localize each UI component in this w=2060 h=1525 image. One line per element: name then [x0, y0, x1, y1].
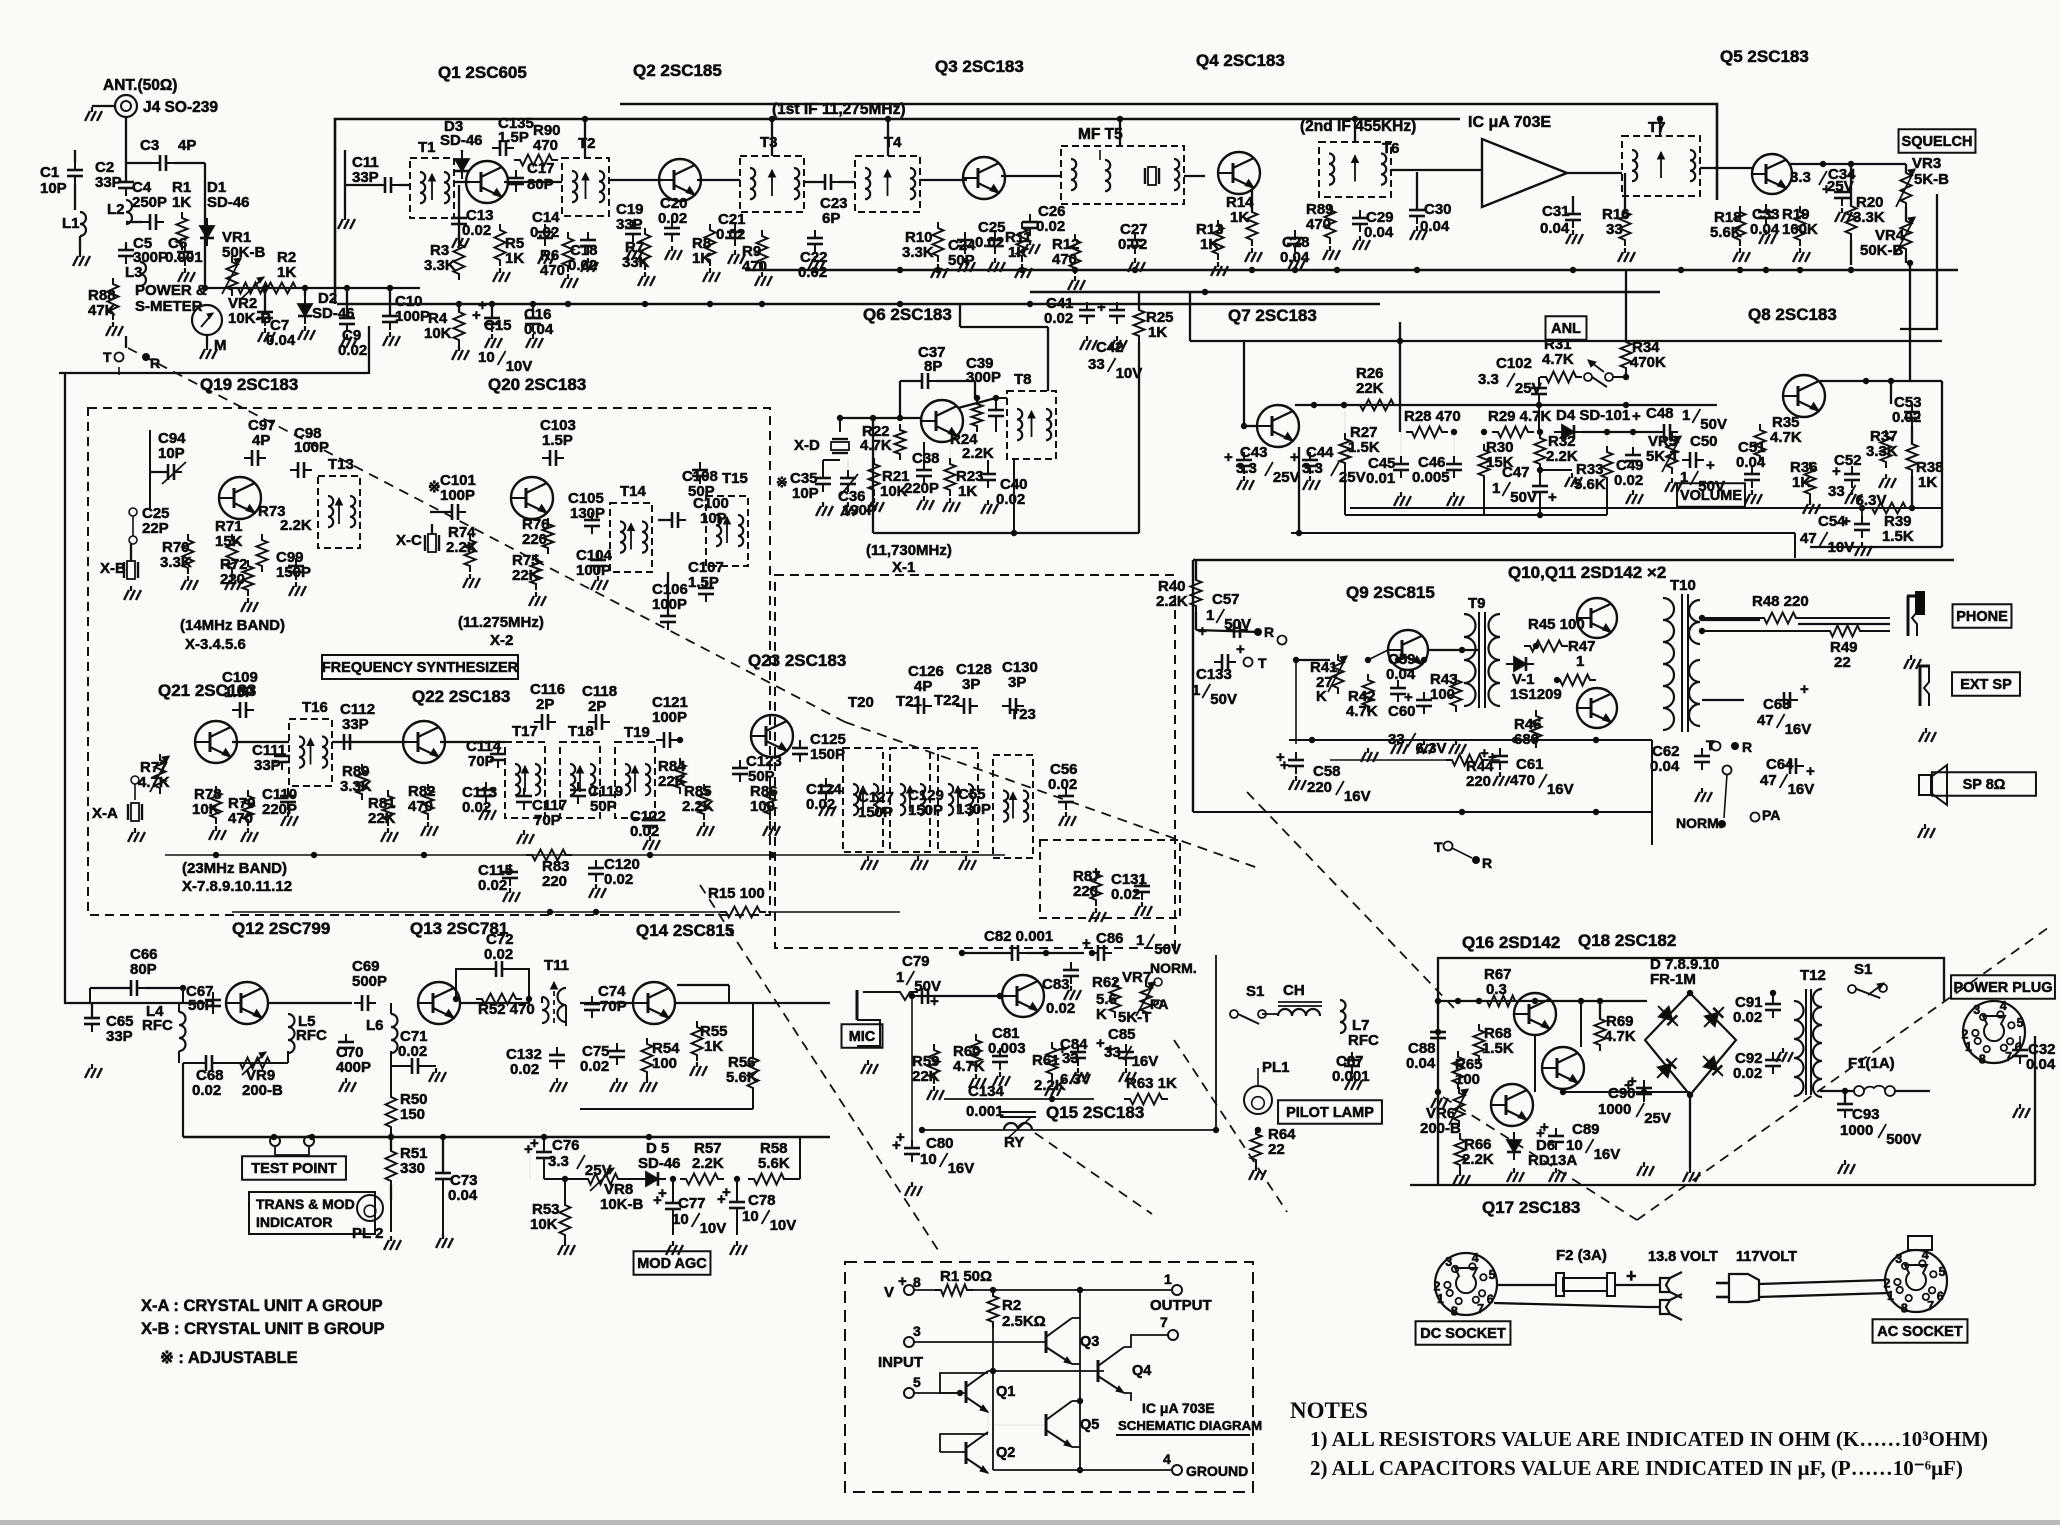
svg-text:1000: 1000	[1598, 1101, 1631, 1118]
svg-text:10: 10	[478, 349, 495, 366]
svg-text:Q8 2SC183: Q8 2SC183	[1748, 305, 1837, 324]
svg-text:1: 1	[1206, 607, 1214, 624]
svg-text:22K: 22K	[912, 1068, 940, 1085]
svg-text:0.02: 0.02	[1733, 1065, 1762, 1082]
svg-text:10V: 10V	[700, 1220, 727, 1237]
transistor Q21	[195, 721, 237, 763]
boxed label TRANS MOD	[249, 1192, 375, 1234]
svg-text:TEST POINT: TEST POINT	[251, 1161, 337, 1177]
pin 7	[1168, 1330, 1178, 1340]
svg-text:C63: C63	[1763, 696, 1791, 713]
svg-text:200-B: 200-B	[1420, 1120, 1461, 1137]
transistor Q5	[1752, 154, 1792, 194]
svg-text:6: 6	[1487, 1292, 1494, 1306]
svg-text:33P: 33P	[106, 1028, 133, 1045]
boxed label SQUELCH	[1899, 129, 1976, 153]
svg-text:0.04: 0.04	[2026, 1056, 2056, 1073]
wire Q7 row	[1295, 404, 1717, 406]
svg-text:MIC: MIC	[849, 1029, 876, 1045]
dashed link ac	[1637, 925, 2052, 1220]
svg-text:0.02: 0.02	[1118, 236, 1147, 253]
svg-text:1.5K: 1.5K	[1482, 1040, 1514, 1057]
svg-text:R1 50Ω: R1 50Ω	[940, 1268, 992, 1285]
svg-text:J4 SO-239: J4 SO-239	[143, 99, 218, 116]
svg-text:Q9 2SC815: Q9 2SC815	[1346, 583, 1435, 602]
wire	[1215, 955, 1217, 1130]
switch R-T	[1278, 636, 1287, 645]
wire	[454, 181, 470, 183]
svg-text:10: 10	[920, 1151, 937, 1168]
svg-text:+: +	[1096, 1035, 1105, 1052]
dashed box synthesizer	[88, 408, 770, 915]
svg-text:4.7K: 4.7K	[1346, 703, 1378, 720]
wire	[165, 854, 1005, 856]
svg-text:T: T	[1434, 839, 1443, 855]
svg-text:Q15 2SC183: Q15 2SC183	[1046, 1103, 1144, 1122]
svg-text:300P: 300P	[966, 369, 1001, 386]
svg-text:TRANS & MOD: TRANS & MOD	[256, 1196, 355, 1212]
svg-text:0.04: 0.04	[1650, 758, 1680, 775]
svg-text:1S1209: 1S1209	[1510, 686, 1562, 703]
jack phone	[1907, 596, 1910, 636]
wire	[1482, 759, 1500, 761]
power plug	[1963, 1001, 2025, 1063]
svg-text:R15 100: R15 100	[708, 885, 765, 902]
svg-text:SD-46: SD-46	[440, 132, 483, 149]
svg-text:3.3: 3.3	[1302, 460, 1323, 477]
boxed label FREQUENCY SYNTHESIZER	[322, 655, 518, 679]
svg-text:25V: 25V	[1644, 1110, 1671, 1127]
svg-text:T7: T7	[1648, 119, 1666, 136]
svg-text:Q5: Q5	[1080, 1417, 1099, 1433]
wire	[65, 373, 160, 1003]
boxed label DC SOCKET	[1416, 1321, 1511, 1345]
svg-text:X-C: X-C	[396, 532, 422, 549]
svg-text:2.2K: 2.2K	[1546, 448, 1578, 465]
svg-text:4: 4	[1163, 1451, 1171, 1467]
svg-text:Q14 2SC815: Q14 2SC815	[636, 921, 734, 940]
svg-text:0.02: 0.02	[1046, 1000, 1075, 1017]
svg-text:C15: C15	[484, 317, 512, 334]
svg-text:+: +	[722, 1184, 731, 1201]
svg-text:T19: T19	[624, 724, 650, 741]
transistor Q8	[1783, 375, 1825, 417]
svg-text:10P: 10P	[700, 510, 727, 527]
wire	[332, 741, 407, 743]
wire	[1563, 1091, 1690, 1093]
wire	[205, 287, 420, 289]
svg-text:T14: T14	[620, 483, 647, 500]
svg-text:25V: 25V	[1339, 469, 1366, 486]
svg-text:Q1: Q1	[996, 1384, 1015, 1400]
svg-text:0.02: 0.02	[1044, 310, 1073, 327]
boxed label ANL	[1546, 316, 1587, 340]
svg-text:X-1: X-1	[892, 559, 915, 576]
svg-text:K: K	[1316, 688, 1327, 705]
wire Q7 base	[1244, 425, 1257, 427]
transistor Q20	[511, 477, 553, 519]
svg-text:SP 8Ω: SP 8Ω	[1963, 777, 2006, 793]
svg-text:POWER &: POWER &	[135, 282, 207, 299]
svg-text:50P: 50P	[688, 483, 715, 500]
svg-text:0.003: 0.003	[988, 1040, 1026, 1057]
svg-text:Q1 2SC605: Q1 2SC605	[438, 63, 527, 82]
wire	[1580, 1001, 1582, 1047]
svg-text:R63 1K: R63 1K	[1126, 1075, 1177, 1092]
svg-text:+: +	[1548, 489, 1557, 506]
svg-text:C50: C50	[1690, 433, 1718, 450]
DC socket	[1435, 1253, 1497, 1315]
wire	[337, 303, 1380, 306]
svg-text:L3: L3	[125, 264, 143, 281]
svg-text:+: +	[1106, 1041, 1115, 1058]
boxed label SP 8ohm	[1932, 772, 2036, 796]
svg-text:T21: T21	[896, 693, 922, 710]
dashed link relay1	[1174, 1040, 1287, 1212]
transistor Q16	[1514, 993, 1556, 1035]
svg-text:1.5P: 1.5P	[224, 684, 255, 701]
junction dots tx	[271, 1134, 277, 1140]
svg-text:OUTPUT: OUTPUT	[1150, 1297, 1212, 1314]
switch ANL	[1584, 373, 1592, 381]
wire	[268, 1002, 352, 1004]
svg-text:Q19 2SC183: Q19 2SC183	[200, 375, 298, 394]
dashed box synthesizer right	[775, 575, 1175, 948]
svg-text:PL 2: PL 2	[352, 1225, 383, 1242]
svg-text:4.7K: 4.7K	[1604, 1028, 1636, 1045]
svg-text:1: 1	[1136, 932, 1144, 949]
svg-text:16V: 16V	[1344, 788, 1371, 805]
svg-text:3: 3	[1973, 1003, 1980, 1017]
svg-text:X-B: X-B	[100, 560, 126, 577]
transistor Q18	[1542, 1047, 1584, 1089]
wire	[920, 179, 967, 181]
wire	[745, 269, 1958, 272]
svg-text:100P: 100P	[440, 487, 475, 504]
boxed label EXT SP	[1952, 672, 2020, 696]
wire	[460, 1002, 530, 1004]
wire Q6 left	[872, 418, 874, 533]
boxed label VOLUME	[1677, 483, 1745, 507]
svg-text:10K: 10K	[424, 325, 452, 342]
svg-text:2: 2	[1962, 1027, 1969, 1041]
svg-text:Q18 2SC182: Q18 2SC182	[1578, 931, 1676, 950]
svg-text:T3: T3	[760, 134, 778, 151]
svg-text:1K: 1K	[1230, 209, 1249, 226]
svg-text:2.2K: 2.2K	[1156, 593, 1188, 610]
wire T feeds	[584, 119, 586, 158]
svg-text:C47: C47	[1502, 464, 1530, 481]
svg-text:33: 33	[1088, 356, 1105, 373]
junction dots audio2	[1293, 657, 1299, 663]
svg-text:1K: 1K	[277, 264, 296, 281]
svg-text:7: 7	[1160, 1314, 1168, 1330]
svg-text:1: 1	[1887, 1289, 1894, 1303]
svg-text:(14MHz BAND): (14MHz BAND)	[180, 617, 285, 634]
svg-text:C83: C83	[1042, 976, 1070, 993]
svg-text:10P: 10P	[158, 445, 185, 462]
svg-text:470: 470	[533, 137, 558, 154]
svg-text:C3: C3	[140, 137, 159, 154]
svg-text:Q22 2SC183: Q22 2SC183	[412, 687, 510, 706]
svg-text:+: +	[658, 1185, 667, 1202]
transistor Q9	[1388, 630, 1428, 670]
svg-text:10V: 10V	[770, 1217, 797, 1234]
svg-text:70P: 70P	[600, 998, 627, 1015]
svg-text:70P: 70P	[534, 812, 561, 829]
svg-text:Q4 2SC183: Q4 2SC183	[1196, 51, 1285, 70]
svg-text:5: 5	[913, 1374, 921, 1390]
svg-text:Q6 2SC183: Q6 2SC183	[863, 305, 952, 324]
svg-text:0.04: 0.04	[1736, 454, 1766, 471]
junction dots row270	[812, 267, 818, 273]
meter M	[192, 305, 222, 335]
dashed link synth	[845, 722, 1258, 868]
junction dots row288	[202, 285, 208, 291]
svg-text:+: +	[1632, 408, 1641, 425]
svg-text:2) ALL CAPACITORS VALUE ARE I: 2) ALL CAPACITORS VALUE ARE INDICATED IN…	[1310, 1456, 1963, 1480]
wire ANL top	[1244, 340, 1942, 342]
svg-text:+: +	[1540, 1119, 1549, 1136]
svg-text:220: 220	[1466, 773, 1491, 790]
svg-text:500P: 500P	[352, 973, 387, 990]
svg-text:0.04: 0.04	[1540, 220, 1570, 237]
svg-text:C52: C52	[1834, 452, 1862, 469]
wire	[618, 1178, 638, 1180]
transistor Q1 inset	[965, 1381, 968, 1403]
svg-text:6.3V: 6.3V	[1416, 740, 1447, 757]
svg-text:25V: 25V	[1273, 469, 1300, 486]
svg-text:3.3: 3.3	[1790, 169, 1811, 186]
svg-text:C133: C133	[1196, 666, 1232, 683]
svg-text:0.04: 0.04	[448, 1187, 478, 1204]
svg-text:117VOLT: 117VOLT	[1736, 1249, 1797, 1265]
pin 4 GROUND	[1172, 1465, 1182, 1475]
svg-text:SQUELCH: SQUELCH	[1902, 134, 1973, 150]
svg-text:D4 SD-101: D4 SD-101	[1556, 407, 1630, 424]
svg-text:5: 5	[1939, 1265, 1946, 1279]
svg-text:8: 8	[1901, 1301, 1908, 1315]
svg-text:V: V	[884, 1284, 894, 1301]
svg-text:MOD AGC: MOD AGC	[637, 1256, 707, 1272]
svg-text:220P: 220P	[904, 480, 939, 497]
svg-text:X-B : CRYSTAL UNIT B GROUP: X-B : CRYSTAL UNIT B GROUP	[141, 1320, 385, 1338]
svg-text:0.02: 0.02	[1036, 218, 1065, 235]
svg-text:C86: C86	[1096, 930, 1124, 947]
svg-text:7: 7	[1477, 1302, 1484, 1316]
svg-text:0.02: 0.02	[1614, 472, 1643, 489]
wire	[529, 1137, 531, 1179]
jack ext sp	[1919, 666, 1922, 706]
svg-text:T9: T9	[1468, 595, 1486, 612]
svg-text:22: 22	[1834, 654, 1851, 671]
svg-text:AC SOCKET: AC SOCKET	[1877, 1324, 1963, 1340]
svg-text:C31: C31	[1542, 203, 1570, 220]
svg-text:RY: RY	[1004, 1134, 1024, 1151]
boxed label TEST POINT	[242, 1156, 346, 1180]
switch T-R	[115, 353, 124, 362]
wire	[697, 179, 740, 181]
boxed label POWER PLUG	[1951, 975, 2055, 999]
relay RY	[1000, 1111, 1036, 1113]
mic jack	[856, 990, 859, 1020]
svg-text:DC SOCKET: DC SOCKET	[1420, 1326, 1506, 1342]
svg-text:2P: 2P	[588, 698, 606, 715]
svg-text:T23: T23	[1010, 706, 1036, 723]
wire	[1534, 1035, 1536, 1092]
svg-text:+: +	[1290, 449, 1299, 466]
svg-text:10V: 10V	[506, 358, 533, 375]
svg-text:100P: 100P	[294, 439, 329, 456]
svg-text:1K: 1K	[958, 483, 977, 500]
svg-text:C43: C43	[1240, 444, 1268, 461]
svg-text:0.02: 0.02	[192, 1082, 221, 1099]
svg-text:Q16 2SD142: Q16 2SD142	[1462, 933, 1560, 952]
svg-text:4.7K: 4.7K	[860, 437, 892, 454]
svg-text:T20: T20	[848, 694, 874, 711]
svg-text:50V: 50V	[1700, 416, 1727, 433]
svg-text:Q7 2SC183: Q7 2SC183	[1228, 306, 1317, 325]
svg-text:1.5P: 1.5P	[542, 432, 573, 449]
wire audio bus	[1193, 811, 1652, 813]
svg-text:3P: 3P	[962, 676, 980, 693]
svg-text:+: +	[1488, 749, 1497, 766]
svg-text:R48 220: R48 220	[1752, 593, 1809, 610]
boxed label AC SOCKET	[1873, 1319, 1968, 1343]
svg-text:T: T	[103, 349, 112, 365]
svg-text:0.01: 0.01	[1366, 470, 1395, 487]
svg-text:10P: 10P	[40, 180, 67, 197]
wire	[160, 1002, 205, 1004]
wire	[125, 117, 127, 175]
svg-text:C76: C76	[552, 1137, 580, 1154]
svg-text:1: 1	[1682, 407, 1690, 424]
svg-text:100P: 100P	[395, 308, 430, 325]
svg-text:SD-46: SD-46	[638, 1155, 681, 1172]
wire	[918, 995, 1006, 997]
svg-text:+: +	[1097, 299, 1106, 316]
wire	[544, 1178, 588, 1180]
svg-text:0.005: 0.005	[1412, 469, 1450, 486]
svg-text:16V: 16V	[1547, 781, 1574, 798]
svg-text:22P: 22P	[142, 520, 169, 537]
svg-text:33P: 33P	[95, 174, 122, 191]
svg-text:0.02: 0.02	[510, 1061, 539, 1078]
svg-text:(2nd IF 455KHz): (2nd IF 455KHz)	[1300, 118, 1416, 135]
svg-text:+: +	[478, 297, 487, 314]
svg-text:NORM.: NORM.	[1150, 960, 1197, 976]
junction dots mic	[1049, 1096, 1055, 1102]
svg-text:2: 2	[1434, 1279, 1441, 1293]
junction dots power2	[1435, 1029, 1441, 1035]
svg-text:100P: 100P	[652, 596, 687, 613]
svg-text:T17: T17	[512, 723, 538, 740]
svg-text:C30: C30	[1424, 201, 1452, 218]
wire audio top	[1193, 559, 1954, 562]
svg-text:RFC: RFC	[296, 1027, 327, 1044]
svg-text:80P: 80P	[130, 961, 157, 978]
speaker SP	[1919, 775, 1931, 795]
wire	[1567, 172, 1622, 174]
transistor Q10	[1577, 598, 1617, 638]
svg-text:PA: PA	[1762, 807, 1780, 823]
svg-text:(23MHz BAND): (23MHz BAND)	[182, 860, 287, 877]
svg-text:0.04: 0.04	[1386, 666, 1416, 683]
svg-text:IC μA 703E: IC μA 703E	[1468, 114, 1551, 131]
svg-text:0.02: 0.02	[1733, 1009, 1762, 1026]
svg-text:ANT.(50Ω): ANT.(50Ω)	[103, 77, 177, 94]
svg-text:C44: C44	[1306, 444, 1334, 461]
wire	[1798, 623, 1890, 625]
svg-text:1: 1	[896, 969, 904, 986]
svg-text:C79: C79	[902, 953, 930, 970]
svg-text:200-B: 200-B	[242, 1082, 283, 1099]
svg-text:4.7K: 4.7K	[1542, 351, 1574, 368]
lamp PL1	[1244, 1086, 1272, 1114]
boxed label MIC	[842, 1024, 883, 1048]
wire	[620, 104, 1717, 200]
svg-text:+: +	[1842, 513, 1851, 530]
svg-text:5.6K: 5.6K	[758, 1155, 790, 1172]
transistor Q2	[659, 159, 701, 201]
transformer T5 crystal filter	[1061, 146, 1184, 204]
svg-text:1K: 1K	[1918, 474, 1937, 491]
svg-text:X-7.8.9.10.11.12: X-7.8.9.10.11.12	[182, 878, 292, 895]
wire Q6 coll	[958, 398, 996, 408]
lamp PL2	[357, 1195, 383, 1221]
svg-text:8P: 8P	[924, 358, 942, 375]
svg-text:C82 0.001: C82 0.001	[984, 928, 1053, 945]
svg-text:F1(1A): F1(1A)	[1848, 1055, 1895, 1072]
svg-text:10K: 10K	[530, 1216, 558, 1233]
svg-text:T11: T11	[544, 957, 569, 974]
svg-text:70P: 70P	[468, 753, 495, 770]
wire	[1030, 291, 1660, 294]
svg-text:2: 2	[1884, 1276, 1891, 1290]
transistor Q23	[751, 715, 793, 757]
svg-text:T12: T12	[1800, 967, 1826, 984]
wire	[335, 119, 1460, 304]
svg-text:Q20 2SC183: Q20 2SC183	[488, 375, 586, 394]
svg-text:C48: C48	[1646, 405, 1674, 422]
svg-text:3.3: 3.3	[1236, 460, 1257, 477]
svg-text:Q2 2SC185: Q2 2SC185	[633, 61, 722, 80]
svg-text:L1: L1	[62, 215, 80, 232]
svg-text:Q4: Q4	[1132, 1363, 1151, 1379]
svg-text:C17: C17	[527, 160, 555, 177]
transistor Q6	[921, 400, 963, 442]
svg-text:10: 10	[672, 1211, 689, 1228]
wire	[232, 741, 289, 743]
svg-text:T10: T10	[1670, 577, 1696, 594]
transistor Q12	[226, 982, 268, 1024]
svg-text:7: 7	[2005, 1050, 2012, 1064]
svg-text:+: +	[1822, 181, 1831, 198]
transistor Q15	[1002, 975, 1044, 1017]
wire	[1296, 659, 1330, 661]
svg-text:R: R	[1264, 624, 1274, 640]
junction dots row304	[565, 301, 571, 307]
transistor Q14	[633, 982, 675, 1024]
svg-text:ANL: ANL	[1551, 321, 1581, 337]
svg-text:1: 1	[1437, 1292, 1444, 1306]
svg-text:SD-46: SD-46	[207, 194, 250, 211]
wire	[232, 911, 620, 913]
switch T2	[1444, 842, 1453, 851]
svg-text:0.02: 0.02	[975, 234, 1004, 251]
svg-text:3: 3	[1445, 1255, 1452, 1269]
svg-text:+: +	[1706, 457, 1715, 474]
